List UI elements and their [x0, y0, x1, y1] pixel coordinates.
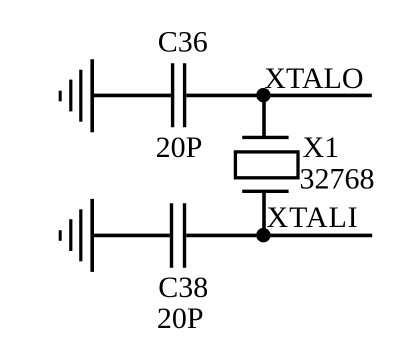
wire (bottom ground to C38) — [94, 234, 170, 238]
capacitor C38 — [172, 203, 185, 268]
ground (bottom) — [60, 199, 92, 272]
junction node XTALI — [256, 228, 270, 242]
wire (C38 to XTALI net) — [186, 234, 372, 238]
svg-text:X1: X1 — [303, 131, 340, 164]
svg-text:C38: C38 — [158, 271, 208, 304]
wire (crystal bottom to XTALI node) — [262, 191, 266, 235]
svg-text:XTALO: XTALO — [264, 62, 363, 95]
svg-text:XTALI: XTALI — [267, 201, 359, 234]
svg-text:C36: C36 — [158, 26, 208, 59]
wire (XTALO node to crystal top) — [262, 95, 266, 137]
junction node XTALO — [256, 88, 270, 102]
svg-text:20P: 20P — [156, 131, 203, 164]
wire (top ground to C36) — [94, 94, 171, 98]
svg-text:32768: 32768 — [300, 163, 375, 196]
capacitor C36 — [173, 63, 185, 127]
ground (top) — [60, 59, 92, 132]
svg-text:20P: 20P — [157, 302, 204, 335]
crystal X1 — [235, 137, 298, 191]
wire (C36 to XTALO net) — [186, 94, 371, 98]
